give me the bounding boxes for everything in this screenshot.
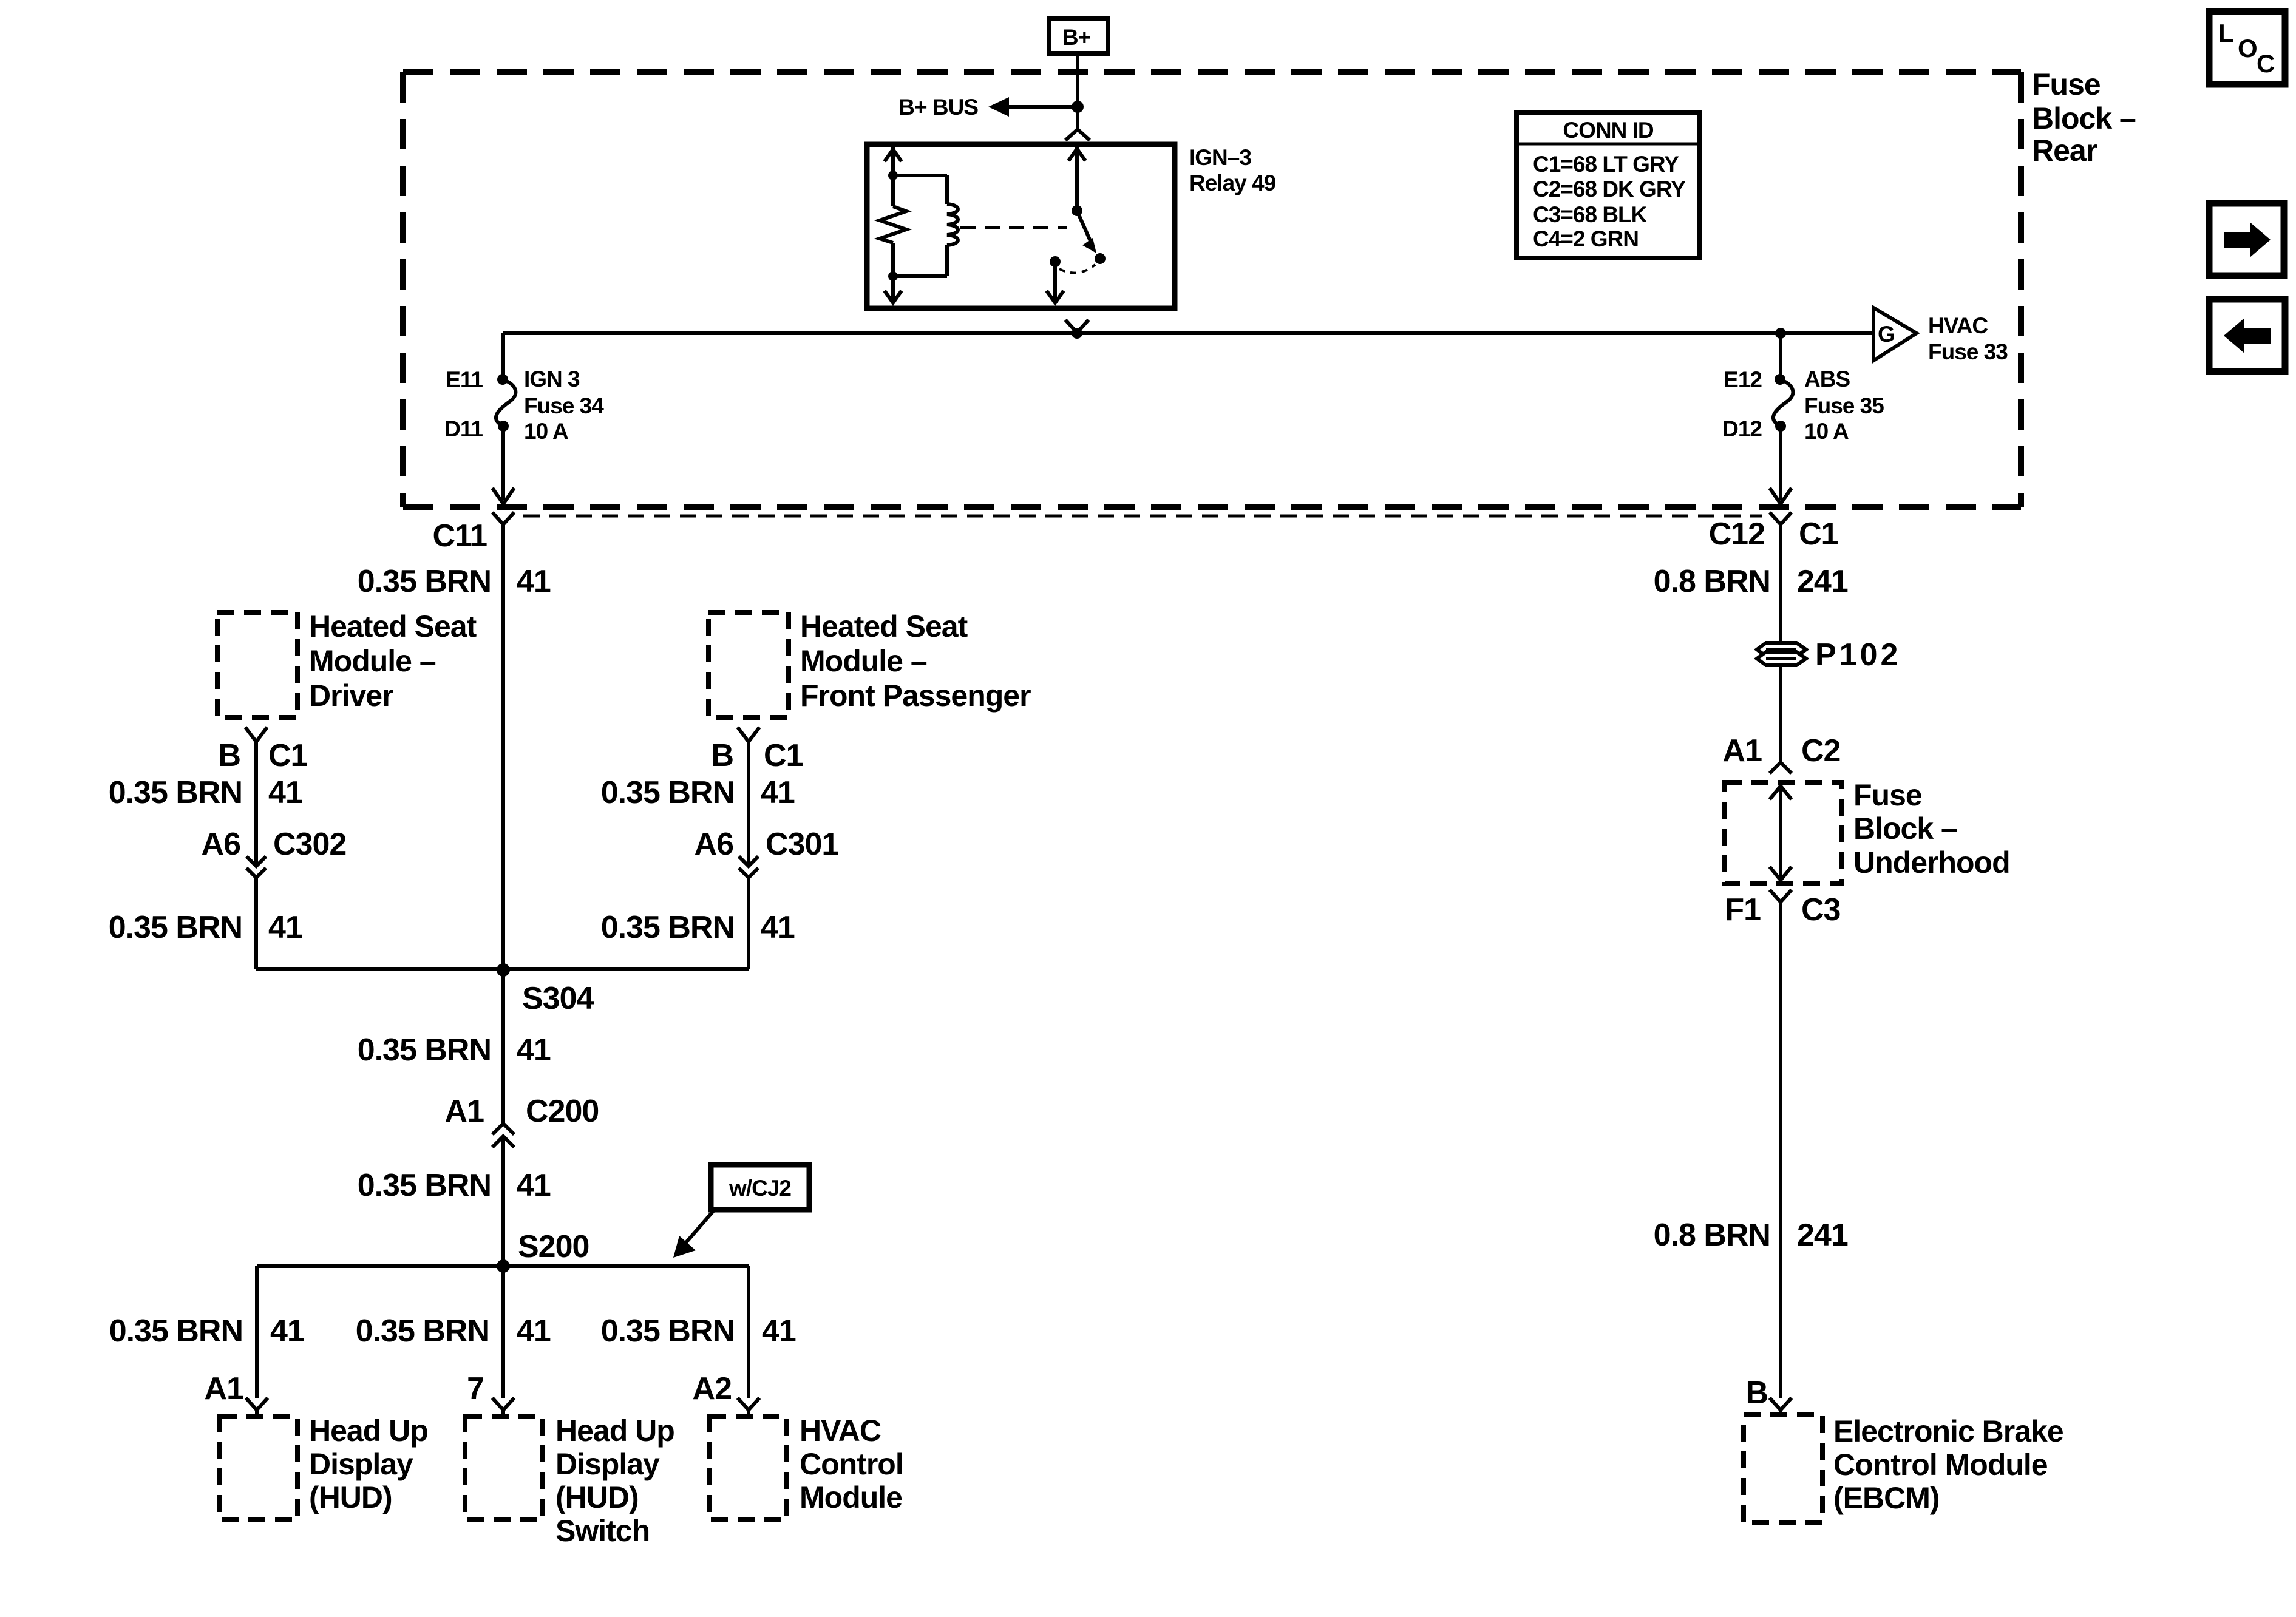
svg-text:C3=68 BLK: C3=68 BLK <box>1533 202 1648 227</box>
svg-text:41: 41 <box>761 910 795 945</box>
svg-text:41: 41 <box>517 1032 551 1068</box>
svg-text:41: 41 <box>517 1314 551 1349</box>
forward arrow icon <box>2209 203 2284 276</box>
svg-text:(HUD): (HUD) <box>555 1480 639 1514</box>
splice P102 <box>1757 637 1901 673</box>
connector chevron at relay output <box>1065 320 1089 333</box>
svg-text:Fuse: Fuse <box>2032 67 2101 101</box>
svg-text:L: L <box>2218 19 2234 47</box>
svg-text:C3: C3 <box>1801 892 1841 927</box>
svg-text:G: G <box>1878 322 1895 347</box>
connector into HVAC control module <box>738 1398 759 1410</box>
svg-text:Block –: Block – <box>1853 812 1957 846</box>
svg-text:C301: C301 <box>766 827 838 862</box>
svg-text:HVAC: HVAC <box>1928 313 1988 338</box>
svg-text:C2=68 DK GRY: C2=68 DK GRY <box>1533 177 1686 202</box>
connector below driver module <box>245 727 267 742</box>
svg-text:Front Passenger: Front Passenger <box>800 679 1031 713</box>
wire C3 to EBCM <box>1779 902 1782 1398</box>
connector C302 double chevron <box>246 856 266 866</box>
node B+ BUS junction <box>1072 101 1084 113</box>
connector into HUD <box>246 1398 268 1410</box>
svg-text:0.8 BRN: 0.8 BRN <box>1654 1218 1770 1253</box>
svg-text:C: C <box>2257 49 2275 78</box>
svg-text:C2: C2 <box>1801 733 1840 768</box>
svg-text:C11: C11 <box>432 518 487 554</box>
splice S200 <box>257 1229 749 1273</box>
branch wires from S200 <box>255 1266 259 1398</box>
svg-text:41: 41 <box>268 910 302 945</box>
svg-text:E12: E12 <box>1724 367 1762 392</box>
heated seat module driver dashed box <box>217 609 477 717</box>
svg-text:(HUD): (HUD) <box>309 1480 392 1514</box>
EBCM module dashed box <box>1744 1414 2063 1523</box>
svg-text:Rear: Rear <box>2032 134 2097 168</box>
fuse ABS Fuse 35 10 A <box>1722 333 1884 444</box>
svg-text:0.35 BRN: 0.35 BRN <box>109 1314 243 1349</box>
svg-text:Heated Seat: Heated Seat <box>309 609 477 643</box>
wire P102 to C2 <box>1779 665 1782 762</box>
svg-text:Fuse: Fuse <box>1853 778 1922 812</box>
wire D11 down to C11 <box>501 426 505 500</box>
svg-text:F1: F1 <box>1725 892 1761 927</box>
svg-text:241: 241 <box>1797 564 1848 599</box>
connector C12 / C1 <box>1709 512 1838 552</box>
bus wire from relay output <box>503 331 1873 335</box>
LOC icon <box>2209 12 2285 84</box>
relay IGN-3 Relay 49 <box>867 144 1276 308</box>
connector chevron at relay input <box>1065 129 1090 140</box>
wire C200 to S200 <box>501 1136 505 1266</box>
svg-text:B+: B+ <box>1062 25 1091 50</box>
svg-text:41: 41 <box>762 1314 796 1349</box>
svg-text:0.35 BRN: 0.35 BRN <box>601 1314 735 1349</box>
svg-text:Display: Display <box>309 1447 413 1481</box>
svg-text:41: 41 <box>761 775 795 810</box>
fuse block underhood dashed box <box>1725 778 2010 884</box>
wire down to IGN3 fuse <box>501 333 505 379</box>
wire C11 to S304 <box>501 524 505 969</box>
svg-text:10 A: 10 A <box>524 419 568 444</box>
svg-text:Module: Module <box>800 1480 902 1514</box>
splice S304 <box>256 963 749 1016</box>
svg-text:A6: A6 <box>202 827 241 862</box>
svg-text:0.35 BRN: 0.35 BRN <box>358 564 491 599</box>
resistor inside relay <box>880 147 906 303</box>
svg-text:0.35 BRN: 0.35 BRN <box>109 910 242 945</box>
node at relay output <box>1072 328 1082 339</box>
connector C301 double chevron <box>739 856 758 866</box>
CONN ID table <box>1517 113 1700 258</box>
svg-text:Underhood: Underhood <box>1853 846 2010 880</box>
wire S304 to C200 <box>501 970 505 1124</box>
svg-text:0.35 BRN: 0.35 BRN <box>601 775 735 810</box>
svg-text:0.35 BRN: 0.35 BRN <box>358 1032 491 1068</box>
svg-text:D11: D11 <box>444 416 483 441</box>
B+ BUS arrow <box>898 95 1078 120</box>
svg-text:w/CJ2: w/CJ2 <box>729 1176 791 1201</box>
svg-text:41: 41 <box>517 564 551 599</box>
svg-text:C1=68 LT GRY: C1=68 LT GRY <box>1533 152 1679 177</box>
svg-text:C1: C1 <box>1799 517 1838 552</box>
svg-text:0.35 BRN: 0.35 BRN <box>356 1314 489 1349</box>
svg-text:Fuse 34: Fuse 34 <box>524 393 604 418</box>
connector into HUD switch <box>492 1398 514 1410</box>
fuse block rear label <box>2032 67 2136 168</box>
connector chevron A1/C2 <box>1770 762 1792 773</box>
svg-text:IGN–3: IGN–3 <box>1189 145 1251 170</box>
svg-text:7: 7 <box>467 1371 484 1406</box>
connector C200 <box>492 1124 514 1134</box>
svg-text:C302: C302 <box>273 827 346 862</box>
svg-text:Driver: Driver <box>309 679 393 713</box>
svg-text:Electronic Brake: Electronic Brake <box>1833 1414 2063 1448</box>
svg-text:A6: A6 <box>695 827 734 862</box>
svg-text:Control Module: Control Module <box>1833 1448 2048 1482</box>
svg-text:Fuse 35: Fuse 35 <box>1804 393 1884 418</box>
connector C11 <box>432 512 514 554</box>
HVAC G triangle <box>1873 308 2008 364</box>
svg-text:(EBCM): (EBCM) <box>1833 1481 1940 1515</box>
svg-text:Heated Seat: Heated Seat <box>800 609 968 643</box>
svg-text:Switch: Switch <box>555 1514 650 1548</box>
svg-text:0.35 BRN: 0.35 BRN <box>109 775 242 810</box>
svg-text:Module –: Module – <box>309 644 436 678</box>
node at ABS fuse tap <box>1775 328 1786 339</box>
svg-text:Control: Control <box>800 1447 903 1481</box>
head up display switch module dashed box <box>465 1414 674 1548</box>
svg-text:Head Up: Head Up <box>555 1414 674 1448</box>
svg-text:ABS: ABS <box>1804 367 1850 392</box>
svg-text:Relay 49: Relay 49 <box>1189 171 1276 195</box>
wire B+ down <box>1076 53 1079 129</box>
connector C1 thin dashed line <box>523 515 1762 518</box>
svg-text:A1: A1 <box>445 1094 484 1129</box>
svg-text:A2: A2 <box>693 1371 732 1406</box>
svg-text:E11: E11 <box>446 367 483 392</box>
connector into EBCM <box>1770 1398 1792 1410</box>
fuse IGN 3 Fuse 34 10 A <box>444 367 604 444</box>
svg-text:10 A: 10 A <box>1804 419 1849 444</box>
heated seat module front passenger dashed box <box>708 609 1031 717</box>
svg-text:A1: A1 <box>1723 733 1762 768</box>
svg-text:241: 241 <box>1797 1218 1848 1253</box>
power feed B+ box <box>1049 18 1108 53</box>
svg-text:B+ BUS: B+ BUS <box>898 95 978 120</box>
HVAC control module dashed box <box>709 1414 903 1520</box>
svg-text:CONN ID: CONN ID <box>1563 118 1654 143</box>
svg-text:Module –: Module – <box>800 644 927 678</box>
svg-text:B: B <box>1745 1375 1768 1411</box>
svg-text:D12: D12 <box>1722 416 1762 441</box>
svg-text:A1: A1 <box>205 1371 244 1406</box>
connector F1/C3 <box>1725 890 1840 927</box>
relay switch <box>1047 147 1106 303</box>
svg-text:S304: S304 <box>522 981 594 1016</box>
svg-text:41: 41 <box>517 1168 551 1203</box>
svg-text:41: 41 <box>268 775 302 810</box>
back arrow icon <box>2209 299 2285 371</box>
svg-text:0.8 BRN: 0.8 BRN <box>1654 564 1770 599</box>
svg-text:Head Up: Head Up <box>309 1414 428 1448</box>
head up display module dashed box <box>220 1414 428 1520</box>
svg-text:P102: P102 <box>1815 637 1901 673</box>
svg-text:O: O <box>2238 34 2258 63</box>
svg-text:Display: Display <box>555 1447 660 1481</box>
svg-text:41: 41 <box>270 1314 304 1349</box>
svg-text:C1: C1 <box>764 738 803 773</box>
svg-text:C12: C12 <box>1709 517 1765 552</box>
svg-text:0.35 BRN: 0.35 BRN <box>601 910 735 945</box>
svg-text:C200: C200 <box>526 1094 599 1129</box>
svg-text:IGN 3: IGN 3 <box>524 367 580 392</box>
connector below passenger module <box>738 727 759 742</box>
svg-text:S200: S200 <box>518 1229 589 1264</box>
svg-text:C4=2 GRN: C4=2 GRN <box>1533 226 1639 251</box>
w/CJ2 tag <box>673 1165 809 1258</box>
relay actuation dashed link <box>960 226 1067 229</box>
fuse block rear dashed box <box>403 72 2021 507</box>
svg-text:Fuse 33: Fuse 33 <box>1928 339 2008 364</box>
svg-text:HVAC: HVAC <box>800 1414 881 1448</box>
relay coil <box>893 175 958 276</box>
svg-text:Block –: Block – <box>2032 101 2136 135</box>
wire C12 to P102 <box>1779 524 1782 643</box>
svg-text:0.35 BRN: 0.35 BRN <box>358 1168 491 1203</box>
wire D12 down to C12 <box>1779 426 1782 500</box>
svg-text:B: B <box>218 738 240 773</box>
svg-text:B: B <box>711 738 733 773</box>
svg-text:C1: C1 <box>268 738 308 773</box>
